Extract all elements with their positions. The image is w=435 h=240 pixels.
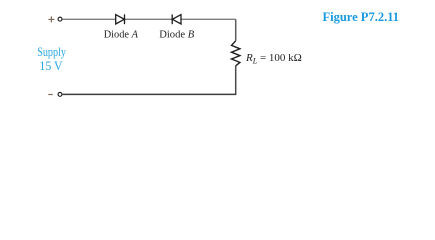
- terminal circle + (open, top left): [58, 17, 62, 21]
- svg-text:15 V: 15 V: [39, 59, 63, 73]
- svg-text:Diode A: Diode A: [104, 29, 138, 41]
- wire top horizontal from + terminal to top-right corner: [63, 18, 236, 20]
- diode A (triangle pointing right + cathode bar): [116, 14, 125, 24]
- svg-text:Diode B: Diode B: [159, 29, 194, 41]
- diode B (cathode bar + triangle pointing left): [172, 14, 181, 24]
- minus sign of supply: [48, 94, 52, 96]
- svg-text:RL = 100 kΩ: RL = 100 kΩ: [245, 52, 302, 66]
- terminal circle - (open, bottom left): [58, 92, 62, 96]
- svg-text:Supply: Supply: [37, 45, 66, 59]
- wire bottom horizontal from bottom-right corner to - terminal: [63, 93, 237, 95]
- wire right vertical (top-right corner down to resistor top): [235, 19, 237, 41]
- wire right vertical (resistor bottom to bottom-right corner): [235, 66, 237, 95]
- svg-text:Figure P7.2.11: Figure P7.2.11: [323, 10, 400, 24]
- resistor RL zigzag: [232, 41, 240, 66]
- plus sign of supply: [48, 16, 54, 22]
